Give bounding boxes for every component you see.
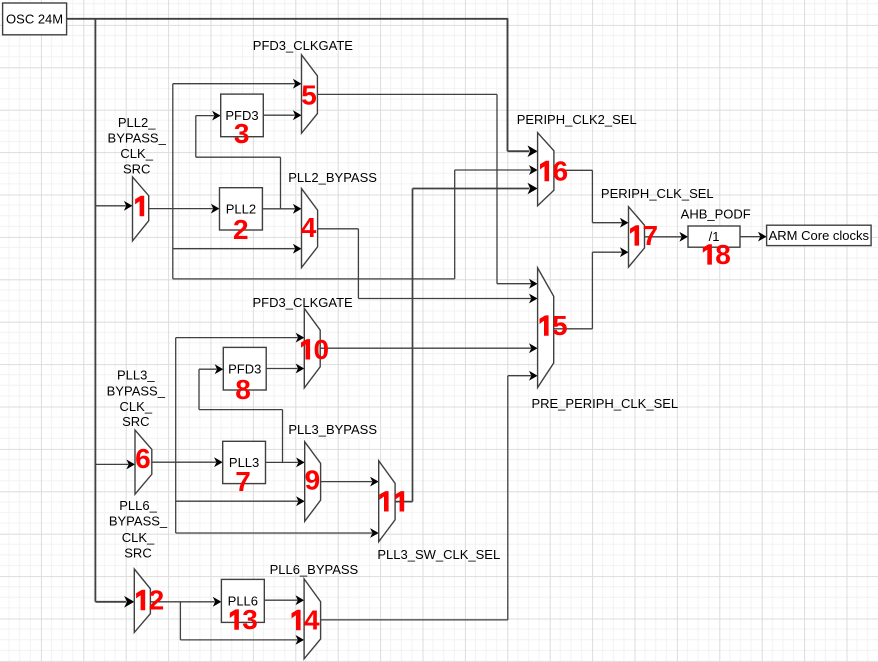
svg-text:5: 5 xyxy=(552,310,568,341)
svg-text:3: 3 xyxy=(242,604,258,635)
svg-text:PRE_PERIPH_CLK_SEL: PRE_PERIPH_CLK_SEL xyxy=(531,396,678,411)
svg-text:ARM Core clocks: ARM Core clocks xyxy=(769,228,870,243)
svg-text:PFD3_CLKGATE: PFD3_CLKGATE xyxy=(253,38,354,53)
svg-text:2: 2 xyxy=(149,585,165,616)
svg-text:PLL6_BYPASS: PLL6_BYPASS xyxy=(270,562,359,577)
svg-text:6: 6 xyxy=(552,156,568,187)
svg-text:7: 7 xyxy=(642,220,658,251)
svg-text:PLL3_: PLL3_ xyxy=(117,368,155,383)
svg-text:7: 7 xyxy=(235,466,251,497)
svg-text:BYPASS_: BYPASS_ xyxy=(109,514,168,529)
svg-text:CLK_: CLK_ xyxy=(120,399,153,414)
svg-text:0: 0 xyxy=(313,334,329,365)
svg-text:6: 6 xyxy=(135,443,151,474)
svg-text:PERIPH_CLK_SEL: PERIPH_CLK_SEL xyxy=(601,186,714,201)
svg-text:PLL3_SW_CLK_SEL: PLL3_SW_CLK_SEL xyxy=(377,547,500,562)
svg-text:SRC: SRC xyxy=(122,414,149,429)
svg-text:PLL6_: PLL6_ xyxy=(119,498,157,513)
svg-text:PLL2_BYPASS: PLL2_BYPASS xyxy=(288,170,377,185)
svg-text:BYPASS_: BYPASS_ xyxy=(107,383,166,398)
svg-text:CLK_: CLK_ xyxy=(120,146,153,161)
svg-text:CLK_: CLK_ xyxy=(122,530,155,545)
svg-text:8: 8 xyxy=(235,374,251,405)
svg-text:SRC: SRC xyxy=(124,546,151,561)
svg-text:9: 9 xyxy=(305,464,321,495)
svg-text:AHB_PODF: AHB_PODF xyxy=(681,207,751,222)
svg-text:5: 5 xyxy=(301,79,317,110)
svg-text:3: 3 xyxy=(234,118,250,149)
svg-text:PLL2_: PLL2_ xyxy=(118,115,156,130)
svg-text:PFD3_CLKGATE: PFD3_CLKGATE xyxy=(253,295,354,310)
svg-text:OSC 24M: OSC 24M xyxy=(6,12,63,27)
svg-text:SRC: SRC xyxy=(123,162,150,177)
svg-text:2: 2 xyxy=(233,214,249,245)
svg-text:4: 4 xyxy=(301,212,317,243)
svg-text:PERIPH_CLK2_SEL: PERIPH_CLK2_SEL xyxy=(517,112,637,127)
svg-text:BYPASS_: BYPASS_ xyxy=(108,131,167,146)
svg-text:8: 8 xyxy=(715,239,731,270)
svg-text:PLL3_BYPASS: PLL3_BYPASS xyxy=(288,422,377,437)
svg-text:4: 4 xyxy=(304,605,320,636)
